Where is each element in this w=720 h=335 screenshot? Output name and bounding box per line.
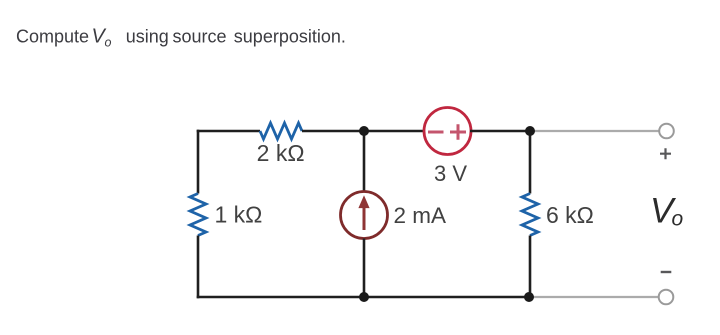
wire: output lead bottom (gray)	[529, 296, 659, 298]
wire: right branch lower	[529, 236, 532, 298]
svg-text:o: o	[672, 208, 684, 231]
wire: top middle segment between R2 and voltage source	[302, 130, 425, 133]
wire: top-right segment voltage source to node B	[470, 130, 530, 133]
label 3 V	[434, 161, 467, 186]
wire: right branch upper	[529, 131, 532, 194]
resistor 1 kOhm (vertical left)	[190, 194, 206, 236]
label minus polarity	[661, 271, 672, 273]
node B junction dot (top right)	[525, 126, 535, 136]
svg-text:3 V: 3 V	[434, 161, 467, 186]
resistor 6 kOhm (vertical right)	[522, 194, 538, 236]
svg-text:using: using	[126, 27, 169, 47]
wire: output lead top (gray)	[530, 130, 659, 132]
node D junction dot (bottom right)	[524, 292, 534, 302]
title text	[16, 26, 346, 50]
svg-text:superposition.: superposition.	[234, 27, 346, 47]
wire: middle branch upper	[363, 131, 366, 193]
voltage source V1 3V	[424, 108, 471, 155]
node C junction dot (bottom middle)	[359, 292, 369, 302]
label 2 mA	[394, 203, 447, 228]
label 2 kOhm	[257, 140, 305, 166]
label Vo output voltage	[650, 192, 684, 231]
wire: left branch lower	[197, 236, 200, 299]
svg-text:1 kΩ: 1 kΩ	[215, 202, 263, 228]
wire: left branch upper	[197, 130, 200, 194]
wire: middle branch lower	[363, 239, 366, 298]
node A junction dot (top middle)	[359, 126, 369, 136]
current source I1 2mA	[341, 192, 388, 239]
svg-text:source: source	[173, 27, 227, 47]
wire: top-left segment node A to resistor R2	[197, 130, 260, 133]
terminal: output top	[659, 124, 674, 139]
label plus polarity	[660, 148, 671, 159]
svg-text:6 kΩ: 6 kΩ	[546, 202, 594, 228]
terminal: output bottom	[659, 290, 674, 305]
label 1 kOhm	[215, 202, 263, 228]
svg-text:o: o	[105, 36, 112, 50]
svg-text:2 kΩ: 2 kΩ	[257, 140, 305, 166]
wire: bottom rail	[197, 296, 529, 299]
resistor 2 kOhm (horizontal)	[260, 123, 302, 139]
svg-text:2 mA: 2 mA	[394, 203, 447, 228]
svg-text:Compute: Compute	[16, 27, 89, 47]
label 6 kOhm	[546, 202, 594, 228]
